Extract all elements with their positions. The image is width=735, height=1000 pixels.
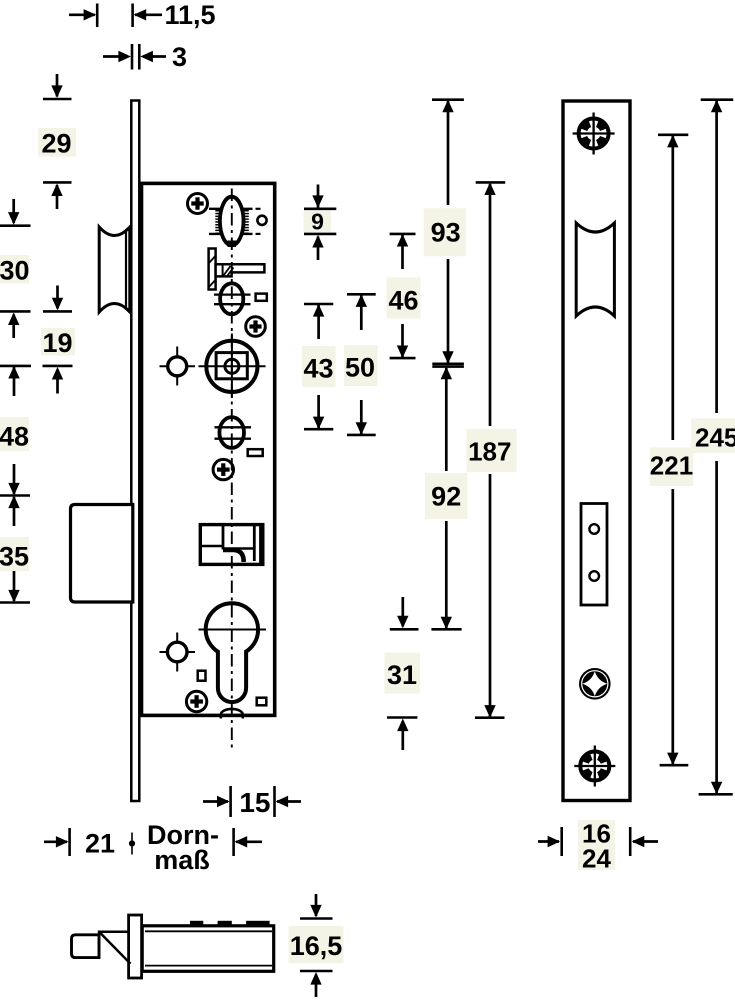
dimension 31 — [390, 628, 419, 631]
svg-text:92: 92 — [431, 482, 461, 512]
dimension 35 — [13, 497, 16, 526]
follower oval 2 with side ticks — [214, 283, 251, 314]
bottom view lock case — [142, 926, 274, 972]
svg-text:11,5: 11,5 — [164, 0, 215, 30]
bottom edge notch of case — [221, 709, 243, 719]
screw I — [186, 691, 206, 711]
svg-text:30: 30 — [0, 256, 30, 286]
svg-text:221: 221 — [650, 451, 693, 481]
dimension 9 (follower travel) — [304, 208, 336, 211]
follower oval 3 with side ticks — [215, 417, 252, 448]
screw bosses on case top edge — [190, 921, 203, 925]
small rectangle J — [257, 698, 267, 706]
deadbolt (front view) — [71, 505, 133, 603]
svg-text:maß: maß — [154, 845, 210, 875]
small hole right of follower — [257, 216, 266, 225]
cylinder fixing plate with two holes — [581, 504, 607, 606]
bottom view latch head — [72, 935, 100, 958]
svg-text:48: 48 — [0, 422, 29, 452]
faceplate strip (front view) — [131, 101, 139, 802]
dimension 19 — [43, 310, 72, 313]
svg-text:43: 43 — [303, 354, 333, 384]
dimension 93 — [432, 98, 464, 101]
screw F — [213, 459, 233, 479]
svg-text:35: 35 — [0, 542, 29, 572]
top countersunk screw on faceplate — [573, 113, 615, 155]
svg-text:3: 3 — [172, 42, 187, 72]
dimension 29 (plate top to case top) — [43, 98, 72, 101]
dimension 11,5 (latch projection) — [96, 4, 99, 28]
euro profile cylinder hole — [199, 603, 267, 702]
svg-text:19: 19 — [42, 328, 72, 358]
T-lever (locking bar) — [209, 249, 265, 290]
svg-text:50: 50 — [345, 353, 375, 383]
dimension 15 — [229, 786, 232, 817]
deadbolt stop block — [200, 525, 262, 565]
lock case outline (front view) — [142, 183, 275, 715]
dimension 92 — [432, 365, 464, 368]
vertical centerline of lock — [231, 189, 233, 749]
faceplate front view outline — [563, 101, 630, 801]
spring follower box with coil springs — [209, 208, 253, 210]
svg-text:31: 31 — [387, 660, 417, 690]
bottom view latch bevel — [99, 932, 129, 958]
dimension 187 — [476, 181, 506, 184]
bottom countersunk screw on faceplate — [574, 746, 615, 787]
spindle hole (4-lobe) in faceplate — [579, 668, 611, 700]
spindle hub (square follower) with crosshairs — [199, 334, 266, 399]
latch opening in faceplate (spool shape) — [576, 223, 614, 316]
fixing hole G with crosshair — [160, 633, 196, 672]
dimension 21 with backset label Dornmass — [44, 840, 67, 843]
dimension 221 (screw distance) — [658, 134, 688, 137]
svg-text:29: 29 — [41, 129, 71, 159]
dimension 30 (latch height) — [0, 224, 31, 227]
screw C — [246, 317, 266, 337]
svg-text:24: 24 — [582, 844, 611, 874]
small rectangle E — [248, 449, 263, 456]
dimension 16 over 24 (faceplate width) — [560, 827, 563, 856]
svg-text:21: 21 — [85, 829, 115, 859]
bottom view faceplate bar — [129, 915, 142, 978]
svg-text:16,5: 16,5 — [290, 931, 343, 961]
screw A top-left in case — [188, 194, 208, 214]
dimension 46 — [390, 233, 416, 236]
latch bolt (front view, spool shape) — [99, 227, 130, 312]
dimension 50 — [347, 293, 376, 296]
fixing hole D with crosshair — [160, 347, 196, 386]
svg-text:9: 9 — [311, 208, 324, 234]
follower oval 1 (latch follower) — [220, 197, 244, 246]
dimension 48 — [0, 365, 31, 368]
dimension 3 (faceplate thickness) — [131, 44, 134, 70]
svg-text:15: 15 — [239, 787, 270, 818]
dimension 245 (faceplate length) — [701, 98, 734, 101]
small rectangle H — [198, 671, 206, 681]
svg-text:245: 245 — [695, 423, 735, 453]
dimension 16,5 (case thickness) — [300, 917, 333, 920]
small rectangle B right of oval 2 — [256, 294, 267, 301]
svg-text:93: 93 — [431, 218, 461, 248]
dimension 43 — [304, 303, 333, 306]
svg-text:187: 187 — [468, 436, 511, 466]
svg-text:46: 46 — [388, 286, 418, 316]
